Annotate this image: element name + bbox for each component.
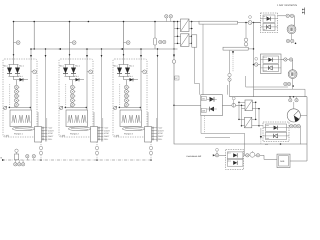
svg-text:3~: 3~ bbox=[124, 105, 126, 108]
terminal pin 5 bbox=[42, 138, 48, 140]
arrow under BB2 bbox=[232, 51, 234, 54]
contact K10 bbox=[228, 73, 231, 76]
motor M11 bbox=[288, 70, 297, 79]
terminal rings unit1 bbox=[286, 14, 289, 17]
svg-text:STOP: STOP bbox=[48, 132, 54, 135]
wire auxiliary drop x=101.5 bbox=[101, 49, 103, 142]
node converter out y=43.4 bbox=[189, 42, 193, 44]
node converter out y=28.5 bbox=[189, 28, 193, 30]
rotor bbox=[12, 127, 34, 131]
sensor B22 bbox=[70, 90, 74, 94]
current transducer B3 bbox=[124, 42, 127, 44]
svg-text:GTO-1: GTO-1 bbox=[74, 75, 79, 78]
terminal rings A4 out bbox=[289, 126, 301, 144]
node converter in y=28.5 bbox=[174, 28, 181, 30]
svg-text:Pumpe 2: Pumpe 2 bbox=[70, 133, 80, 136]
wire dc link bbox=[119, 84, 121, 108]
svg-text:START: START bbox=[158, 129, 165, 132]
sensor B32 bbox=[124, 90, 128, 94]
relay ABB bbox=[277, 154, 290, 168]
terminal pin 4 bbox=[42, 135, 48, 137]
wire busbar to A2 bbox=[202, 24, 204, 95]
terminal pin 1 bbox=[98, 127, 104, 129]
svg-text:GTO-1: GTO-1 bbox=[18, 75, 23, 78]
svg-text:REC 2: REC 2 bbox=[75, 65, 80, 68]
control bus N bbox=[2, 159, 151, 161]
motor stator M3 bbox=[120, 110, 142, 127]
diode V2 (GTO) bbox=[70, 76, 85, 79]
sensor B12 bbox=[14, 90, 18, 94]
contact K2 bbox=[89, 70, 93, 74]
svg-text:FEJL: FEJL bbox=[48, 138, 52, 141]
svg-text:REC 1: REC 1 bbox=[113, 65, 118, 68]
thyristor A3-2 bbox=[125, 68, 130, 74]
terminal pin 5 bbox=[152, 138, 158, 140]
node rail 241.5,105.3 bbox=[241, 105, 243, 107]
converter output rail bbox=[191, 22, 193, 44]
thyristor A1-2 bbox=[263, 23, 275, 30]
svg-text:REC 2: REC 2 bbox=[19, 65, 24, 68]
node converter in y=36.3 bbox=[174, 35, 181, 37]
wire unit1 output bbox=[278, 16, 295, 25]
svg-text:START: START bbox=[104, 129, 111, 132]
fuse F10 bbox=[248, 21, 252, 25]
relay tag A7 bbox=[175, 76, 179, 80]
terminal ring bottom 19.2 bbox=[18, 160, 20, 163]
transformer T4 bbox=[239, 102, 245, 108]
thyristor A3-1 bbox=[263, 56, 279, 63]
svg-text:3~: 3~ bbox=[70, 105, 72, 108]
contact K7 bbox=[172, 60, 176, 64]
diode V3 (GTO) bbox=[124, 76, 139, 79]
earthing symbol PE3 bbox=[114, 106, 117, 109]
converter rails left bbox=[238, 102, 240, 119]
svg-text:ABB: ABB bbox=[280, 160, 285, 163]
node converter out y=21.5 bbox=[189, 21, 193, 23]
node rail 259,125.7 bbox=[258, 125, 260, 127]
wire unit2 output bbox=[281, 60, 293, 70]
arrow on bus B bbox=[120, 48, 123, 50]
wire stator feed bbox=[15, 106, 17, 109]
wire to filter chain bbox=[15, 80, 17, 86]
svg-text:Pumpe 3: Pumpe 3 bbox=[124, 133, 134, 136]
diode V1 (GTO) bbox=[14, 76, 29, 79]
node rail 259,108.6 bbox=[258, 108, 260, 110]
wire stator feed bbox=[71, 106, 73, 109]
svg-text:FEJL: FEJL bbox=[104, 138, 108, 141]
node rail 239,102.3 bbox=[238, 102, 240, 104]
svg-text:REC 2: REC 2 bbox=[129, 65, 134, 68]
node bus B rail crossing bbox=[173, 48, 174, 49]
thyristor A5-2 bbox=[227, 159, 243, 166]
terminal pin 3 bbox=[98, 133, 104, 135]
svg-text:DRIFT: DRIFT bbox=[48, 135, 54, 138]
arrow on bus B bbox=[58, 48, 61, 50]
sensor B13 bbox=[14, 94, 18, 98]
wire relay out bbox=[290, 160, 307, 162]
softstarter module A4 bbox=[263, 122, 289, 142]
sensor B24 bbox=[70, 98, 74, 102]
wire control chain bbox=[214, 154, 226, 156]
node bus A pump2 bbox=[88, 21, 90, 23]
svg-text:REC 1: REC 1 bbox=[3, 65, 8, 68]
pump drive unit LM2 dashed enclosure bbox=[59, 59, 93, 137]
supply unit left bbox=[15, 154, 19, 160]
earthing symbol PE1 bbox=[4, 106, 7, 109]
fuse F20 bbox=[254, 22, 261, 24]
svg-text:STOP: STOP bbox=[158, 132, 164, 135]
connector arrows symbol bbox=[302, 8, 304, 15]
control cable W1 bbox=[40, 142, 42, 160]
svg-text:START: START bbox=[48, 129, 55, 132]
node converter in y=21.5 bbox=[174, 21, 181, 23]
terminal block X1 bbox=[34, 128, 36, 130]
wire phase 2 drop bbox=[140, 49, 142, 110]
svg-text:LM2: LM2 bbox=[61, 134, 66, 137]
terminal ring above 27.3 bbox=[26, 158, 28, 160]
thyristor bridge REC3 bbox=[119, 65, 129, 77]
terminal pin 5 bbox=[98, 138, 104, 140]
wire into module A2 bbox=[174, 104, 201, 106]
wire auxiliary drop x=45.5 bbox=[45, 49, 47, 142]
wire dc link bbox=[9, 84, 11, 108]
wire to filter chain bbox=[125, 80, 127, 86]
busbar BB1 bbox=[199, 21, 238, 24]
softstarter module A3 bbox=[261, 54, 282, 74]
arrow down bbox=[173, 55, 175, 58]
motor stator M2 bbox=[66, 110, 88, 127]
current transformer T3 bbox=[192, 35, 197, 47]
svg-text:LM3: LM3 bbox=[115, 134, 120, 137]
busbar BB2 bbox=[223, 47, 248, 50]
thyristor bridge REC1 bbox=[9, 65, 19, 77]
plug X10 bbox=[245, 23, 247, 39]
svg-text:A10: A10 bbox=[265, 143, 268, 146]
wire to converter T4 rails bbox=[236, 104, 245, 106]
pump drive unit LM3 dashed enclosure bbox=[113, 59, 147, 137]
wire to filter chain bbox=[71, 80, 73, 86]
node rail 239,119.4 bbox=[238, 119, 240, 121]
node converter out y=36.3 bbox=[189, 35, 193, 37]
thyristor A4-1 bbox=[266, 124, 287, 131]
tag A2A bbox=[201, 96, 206, 100]
wire auxiliary drop x=157.5 bbox=[157, 49, 159, 142]
terminal pin 1 bbox=[42, 127, 48, 129]
terminal ring bottom 15.3 bbox=[14, 160, 16, 163]
terminal ring above 33.8 bbox=[33, 158, 35, 160]
sensor B21 bbox=[70, 85, 74, 89]
current transducer B1 bbox=[14, 42, 17, 44]
pump P10 bbox=[293, 102, 295, 109]
winding bbox=[75, 115, 80, 123]
svg-text:GTO-1: GTO-1 bbox=[128, 75, 133, 78]
rotor bbox=[68, 127, 90, 131]
svg-text:FEJL: FEJL bbox=[158, 138, 162, 141]
sensor B33 bbox=[124, 94, 128, 98]
terminal pin 1 bbox=[152, 127, 158, 129]
transformer T5 bbox=[239, 119, 245, 125]
thyristor A2-2 bbox=[210, 107, 215, 112]
winding bbox=[68, 115, 73, 123]
wire dashed measurement bbox=[232, 54, 234, 72]
thyristor bridge REC2 bbox=[65, 65, 75, 77]
thyristor A3-2 bbox=[263, 64, 279, 71]
wire pin riser bbox=[102, 118, 104, 142]
node rail 241.5,125.7 bbox=[241, 125, 243, 127]
earthing symbol PE2 bbox=[60, 106, 63, 109]
svg-text:Pumpe 1: Pumpe 1 bbox=[14, 133, 24, 136]
lamp H1 bbox=[250, 152, 255, 157]
wire motor2 down bbox=[292, 79, 294, 90]
winding bbox=[12, 115, 17, 123]
winding bbox=[129, 115, 134, 123]
terminal pin 4 bbox=[152, 135, 158, 137]
control cable W2 bbox=[96, 142, 98, 160]
thyristor A2-1 bbox=[63, 68, 68, 74]
sensor B23 bbox=[70, 94, 74, 98]
wire motor down bbox=[291, 34, 293, 44]
wire A4 in bbox=[259, 125, 263, 127]
transformer T1 bbox=[181, 19, 190, 32]
sensor B34 bbox=[124, 98, 128, 102]
terminal pin 4 bbox=[98, 135, 104, 137]
svg-text:Kontrolleret drift: Kontrolleret drift bbox=[187, 155, 202, 158]
softstarter module A1 bbox=[261, 13, 278, 33]
wire feed phase L1 from top bus bbox=[13, 22, 15, 65]
transformer T2 bbox=[181, 34, 190, 47]
converter rails right bbox=[252, 102, 259, 125]
sensor B35 bbox=[124, 103, 128, 107]
wire right rail bbox=[252, 22, 261, 24]
svg-text:1 NAT VESTBYEN: 1 NAT VESTBYEN bbox=[277, 4, 297, 7]
terminal block X2 bbox=[90, 128, 92, 130]
wire bus A (main supply) bbox=[14, 21, 177, 23]
tag A2B bbox=[201, 108, 206, 112]
softstarter A5 bbox=[226, 150, 244, 170]
rotor bbox=[122, 127, 144, 131]
sensor B11 bbox=[14, 85, 18, 89]
fuse Q4 on drop bbox=[154, 22, 156, 39]
terminal block X3 bbox=[144, 128, 146, 130]
terminal pin 2 bbox=[152, 130, 158, 132]
winding bbox=[122, 115, 127, 123]
thyristor A1-2 bbox=[15, 68, 20, 74]
wire rail to converter bbox=[173, 21, 175, 23]
winding bbox=[81, 115, 86, 123]
wire return unit2 bbox=[254, 89, 306, 97]
arrow to ground bbox=[260, 136, 262, 139]
fuse F11 bbox=[232, 103, 236, 107]
node rail 255.7,119.4 bbox=[255, 119, 257, 121]
wire bus B (second rail) bbox=[31, 22, 178, 50]
wire feed phase L2 from top bus bbox=[69, 22, 71, 65]
wire dc link bbox=[65, 84, 67, 108]
terminal ring bottom 23.1 bbox=[22, 160, 24, 163]
motor M10 bbox=[287, 25, 296, 34]
terminal rings unit3 bbox=[289, 97, 291, 99]
svg-text:LM1: LM1 bbox=[5, 134, 10, 137]
pump drive unit LM1 dashed enclosure bbox=[3, 59, 37, 137]
control cable W3 bbox=[150, 142, 152, 160]
svg-text:REC 1: REC 1 bbox=[59, 65, 64, 68]
wire main return bbox=[230, 97, 308, 161]
thyristor A3-1 bbox=[117, 68, 122, 74]
svg-text:DRIFT: DRIFT bbox=[104, 135, 110, 138]
softstarter module A2 bbox=[201, 95, 223, 116]
sensor B31 bbox=[124, 85, 128, 89]
wire phase 2 drop bbox=[30, 49, 32, 110]
wire pin riser bbox=[156, 118, 158, 142]
svg-text:3~: 3~ bbox=[14, 105, 16, 108]
wire stator feed bbox=[125, 106, 127, 109]
winding bbox=[19, 115, 24, 123]
svg-text:STOP: STOP bbox=[104, 132, 110, 135]
wire chain riser bbox=[244, 133, 246, 155]
wire converter to busbar bbox=[192, 21, 200, 23]
meter P2 bbox=[170, 18, 172, 22]
winding bbox=[25, 115, 30, 123]
thyristor A1-1 bbox=[263, 15, 275, 22]
terminal pin 2 bbox=[42, 130, 48, 132]
node aux bbox=[280, 143, 282, 145]
wire BB1 to rail bbox=[238, 22, 249, 24]
fuse F21 bbox=[254, 64, 261, 66]
motor stator M1 bbox=[10, 110, 32, 127]
winding bbox=[135, 115, 140, 123]
wire pin riser bbox=[46, 118, 48, 142]
thyristor A2-2 bbox=[71, 68, 76, 74]
terminal pin 3 bbox=[152, 133, 158, 135]
wire feed phase L3 from top bus bbox=[123, 22, 125, 65]
thyristor A2-1 bbox=[210, 97, 215, 102]
sensor B25 bbox=[70, 103, 74, 107]
sensor B14 bbox=[14, 98, 18, 102]
terminal pin 3 bbox=[42, 133, 48, 135]
wire A2 out bbox=[222, 104, 231, 106]
meter P1 bbox=[165, 18, 167, 22]
contact K1 bbox=[33, 70, 37, 74]
wire A2 drop dashed bbox=[204, 116, 206, 134]
node converter in y=43.4 bbox=[174, 42, 181, 44]
wire chain to relay bbox=[244, 155, 277, 159]
svg-text:DRIFT: DRIFT bbox=[158, 135, 164, 138]
thyristor A5-1 bbox=[227, 152, 243, 159]
wire phase 2 drop bbox=[86, 49, 88, 110]
terminal pin 2 bbox=[98, 130, 104, 132]
converter input rail bbox=[177, 22, 179, 44]
wire return lines bbox=[201, 116, 245, 134]
thyristor A4-2 bbox=[266, 132, 287, 139]
wire BB2 tap bbox=[248, 48, 253, 50]
node rail 255.7,102.3 bbox=[255, 102, 257, 104]
contact K3 bbox=[143, 70, 147, 74]
sensor B15 bbox=[14, 103, 18, 107]
wire pump to rail bbox=[300, 114, 307, 116]
current transducer B2 bbox=[70, 42, 73, 44]
thyristor A1-1 bbox=[7, 68, 12, 74]
